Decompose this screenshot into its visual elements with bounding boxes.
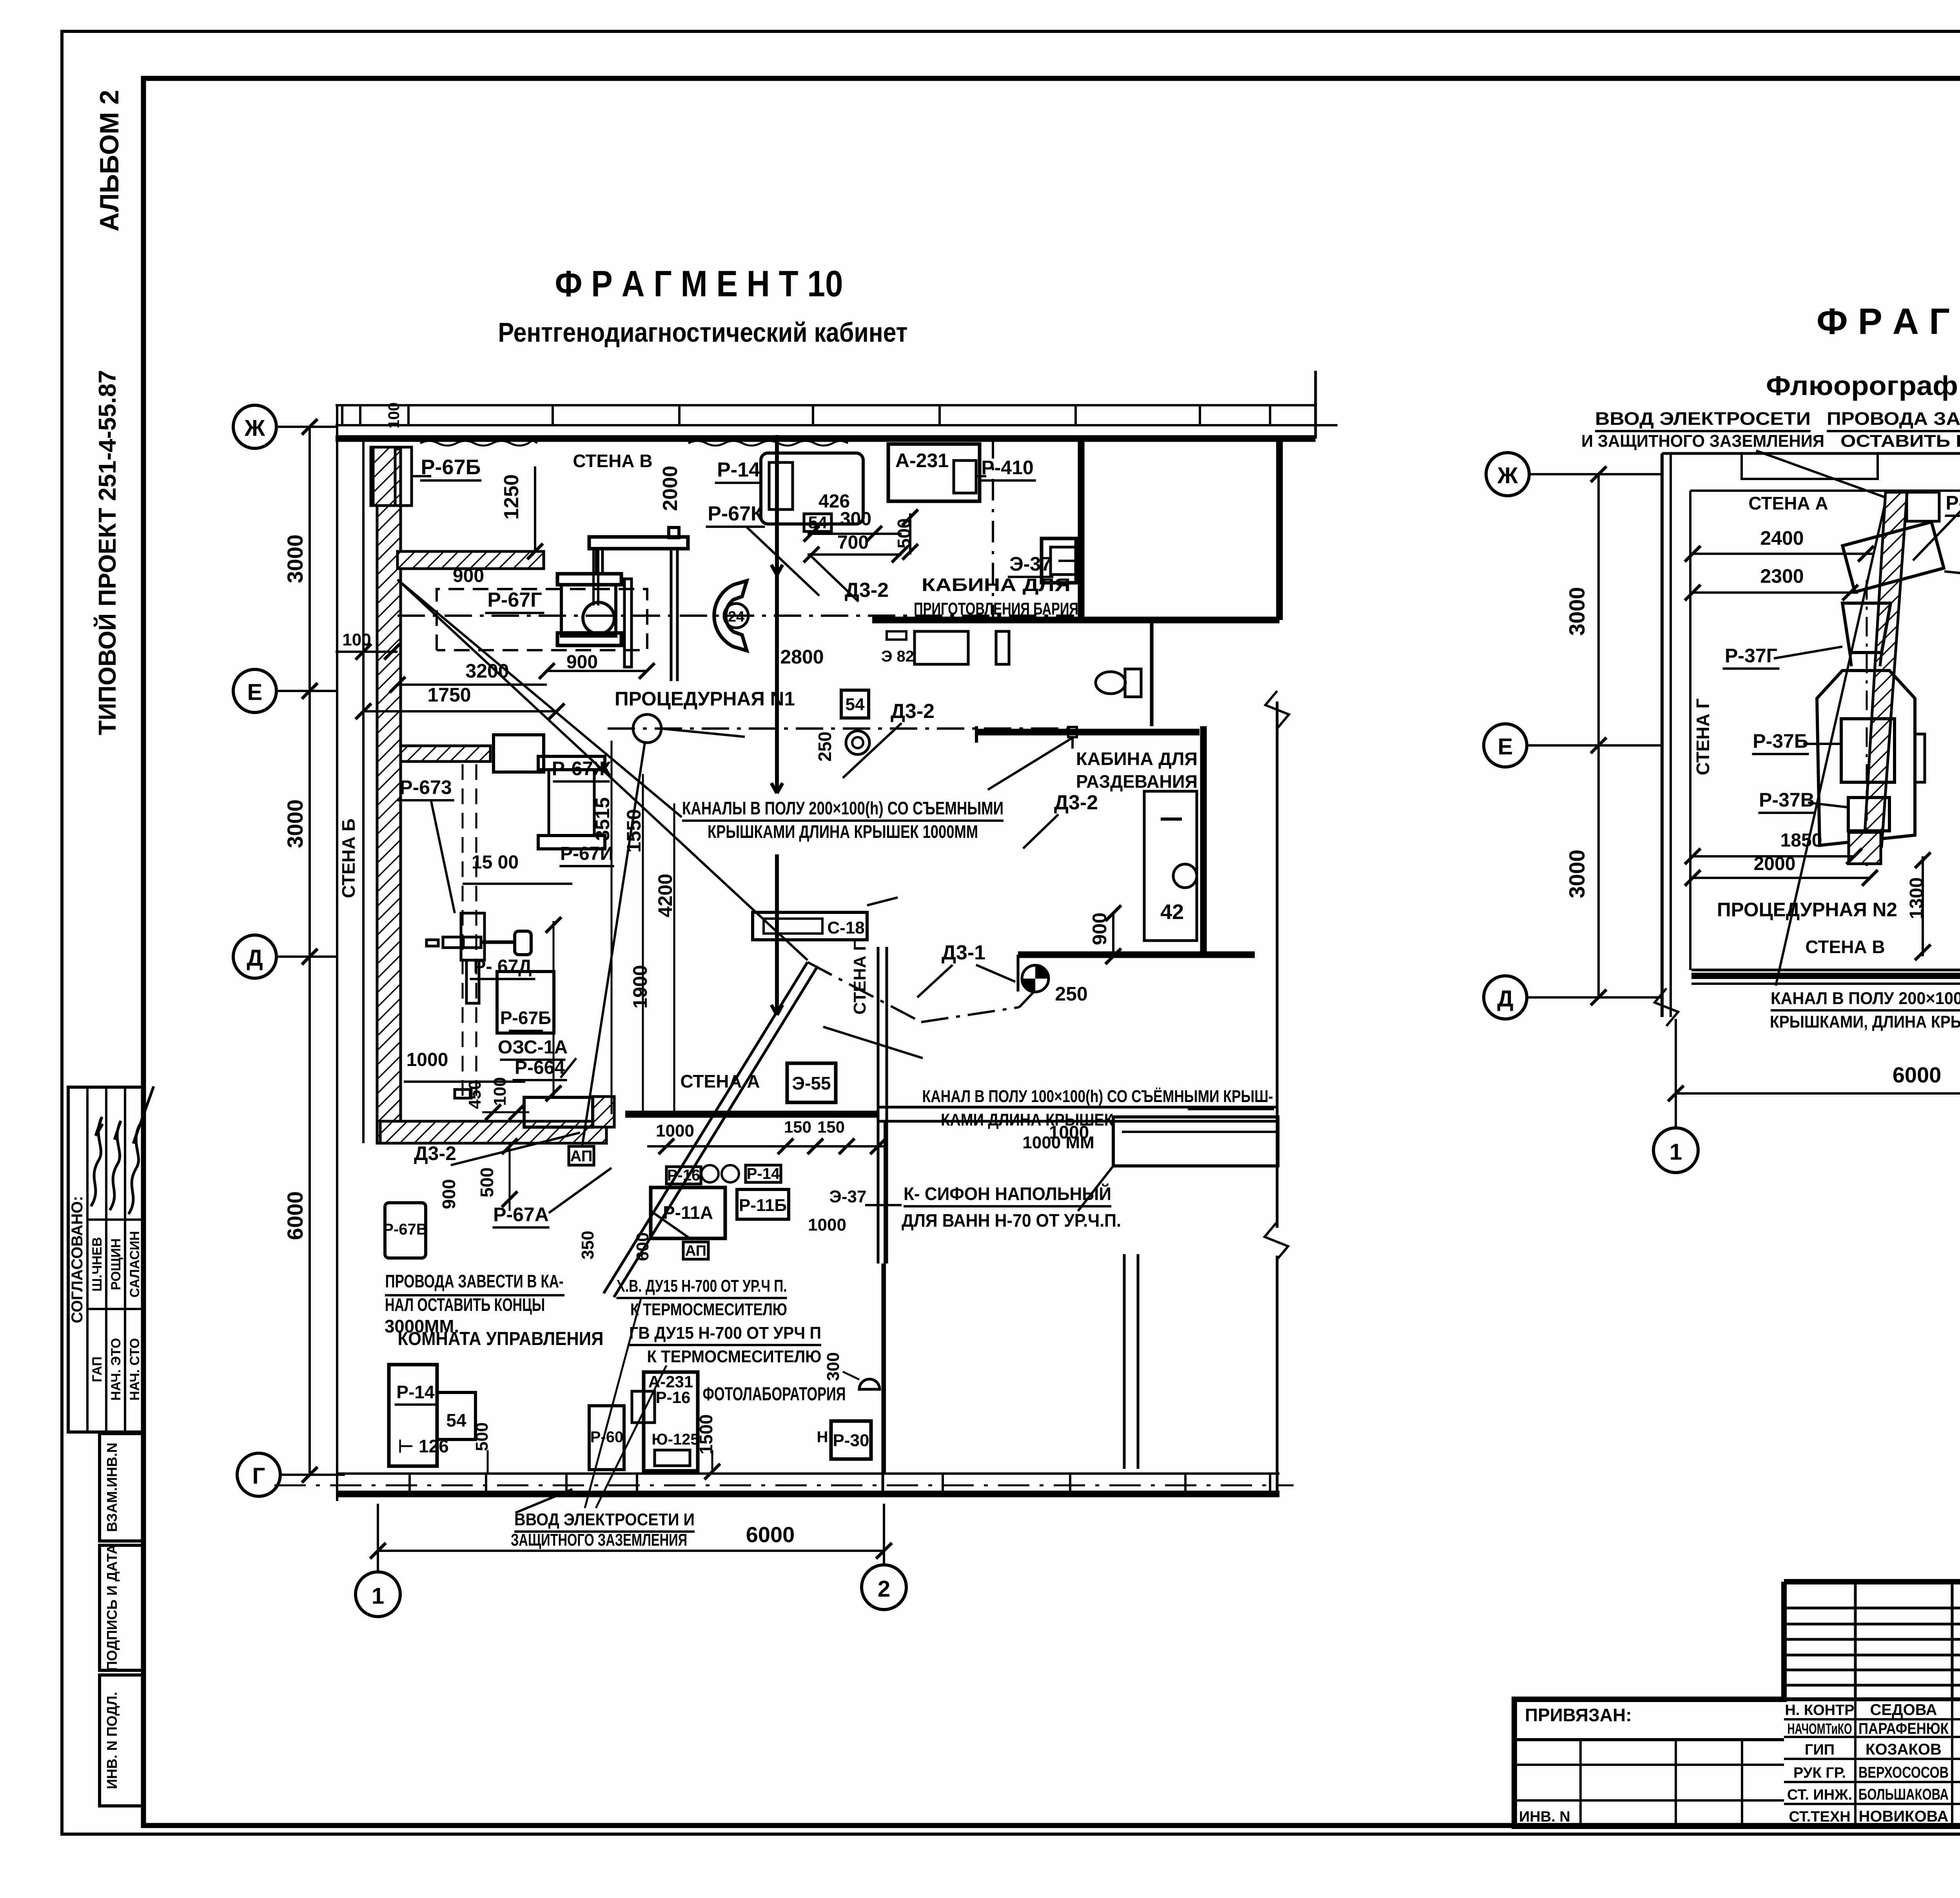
wall right of процедурная (1078, 439, 1085, 620)
corridor right end vertical (1314, 371, 1317, 439)
sidebar box ПОДПИСЬ И ДАТА (100, 1545, 144, 1670)
svg-text:Н. КОНТР: Н. КОНТР (1785, 1702, 1854, 1719)
axis circle 1 bottom (356, 1572, 400, 1617)
corridor wall top band (336, 404, 1316, 406)
axis vertical dim line f9 (1597, 474, 1600, 997)
svg-text:Р-673: Р-673 (399, 776, 452, 798)
interior hatched wall lower room bottom (380, 1121, 606, 1143)
svg-text:КАНАЛ В ПОЛУ 100×100(h) СО СЪЁ: КАНАЛ В ПОЛУ 100×100(h) СО СЪЁМНЫМИ КРЫШ… (922, 1087, 1273, 1106)
wall стена Г double (877, 947, 880, 1264)
equipment С-18 table (753, 912, 867, 940)
svg-text:АП: АП (685, 1243, 706, 1259)
svg-text:1000: 1000 (407, 1050, 448, 1070)
wall horizontal y1582 (872, 617, 1279, 624)
svg-text:6000: 6000 (1893, 1062, 1942, 1087)
svg-text:1000: 1000 (808, 1215, 846, 1235)
equipment lower boxes f9 (1848, 798, 1889, 831)
svg-text:900: 900 (1089, 912, 1111, 945)
axis circle Ж (233, 405, 276, 448)
svg-text:Д3-2: Д3-2 (845, 579, 889, 602)
svg-text:ОЗС-1А: ОЗС-1А (498, 1037, 568, 1058)
svg-text:К ТЕРМОСМЕСИТЕЛЮ: К ТЕРМОСМЕСИТЕЛЮ (630, 1300, 787, 1319)
svg-text:Р-67И: Р-67И (560, 843, 613, 864)
svg-text:1000: 1000 (1049, 1122, 1089, 1142)
svg-text:ПОДПИСЬ И ДАТА: ПОДПИСЬ И ДАТА (104, 1544, 120, 1671)
svg-text:СТЕНА В: СТЕНА В (573, 451, 652, 471)
svg-text:КОЗАКОВ: КОЗАКОВ (1866, 1741, 1942, 1758)
вertical dim lines bottom area (884, 1121, 886, 1474)
svg-text:700: 700 (837, 532, 869, 553)
svg-text:2000: 2000 (1754, 854, 1796, 874)
wall кабина раздевания top (976, 729, 1200, 736)
svg-text:СТЕНА Г: СТЕНА Г (1693, 698, 1713, 775)
axis dim 3000 Ж-Е (309, 427, 311, 691)
svg-text:ПРОЦЕДУРНАЯ N1: ПРОЦЕДУРНАЯ N1 (615, 688, 795, 710)
svg-text:Р-410: Р-410 (981, 457, 1033, 479)
svg-text:1750: 1750 (427, 684, 471, 706)
svg-text:Н: Н (817, 1428, 828, 1446)
sidebar box ИНВ.N ПОДЛ. (100, 1675, 144, 1806)
svg-text:Д3-2: Д3-2 (414, 1142, 456, 1164)
axis dashdot with node (608, 727, 1074, 730)
dim 6000 f9 (1676, 1092, 1960, 1095)
АП box (569, 1146, 594, 1165)
axis dim 6000 Д-Г (309, 957, 311, 1475)
bottom wall piers (410, 1474, 486, 1494)
svg-text:1250: 1250 (500, 474, 523, 520)
svg-text:Э 82: Э 82 (881, 648, 914, 665)
двойной канал diagonal (604, 962, 808, 1293)
svg-text:ВВОД ЭЛЕКТРОСЕТИ: ВВОД ЭЛЕКТРОСЕТИ (1595, 408, 1811, 429)
svg-text:Р-67Б: Р-67Б (500, 1008, 551, 1028)
svg-text:900: 900 (566, 652, 598, 673)
equipment Р-66 box (524, 1097, 593, 1127)
svg-text:Д3-1: Д3-1 (942, 941, 985, 964)
svg-text:Р-14: Р-14 (747, 1165, 780, 1182)
svg-text:КАНАЛ В ПОЛУ 200×100(h) СО СЪЁ: КАНАЛ В ПОЛУ 200×100(h) СО СЪЁМНЫМИ (1771, 989, 1960, 1008)
fixture semicircle (859, 1379, 880, 1389)
svg-text:ЗАЩИТНОГО ЗАЗЕМЛЕНИЯ: ЗАЩИТНОГО ЗАЗЕМЛЕНИЯ (511, 1530, 687, 1550)
equipment А-231 box (888, 444, 980, 501)
siphon near Д3-1 (1022, 965, 1049, 992)
equipment Р-60 box (589, 1406, 624, 1470)
svg-text:ТИПОВОЙ ПРОЕКТ 251-4-55.87: ТИПОВОЙ ПРОЕКТ 251-4-55.87 (94, 370, 121, 735)
svg-text:КАБИНА ДЛЯ: КАБИНА ДЛЯ (922, 575, 1071, 595)
svg-text:100: 100 (490, 1077, 510, 1106)
toilet fixture (1125, 669, 1141, 697)
f9 room inner rect (1690, 489, 1960, 492)
svg-text:ИНВ. N: ИНВ. N (1519, 1809, 1570, 1825)
svg-text:КАНАЛЫ В ПОЛУ 200×100(h) СО С: КАНАЛЫ В ПОЛУ 200×100(h) СО СЪЕМНЫМИ (682, 798, 1004, 818)
wall vertical x2938 (1150, 622, 1154, 726)
svg-text:Рентгенодиагностический каби: Рентгенодиагностический кабинет (498, 317, 908, 348)
box 54 upper (804, 514, 831, 531)
svg-text:1: 1 (1670, 1139, 1682, 1165)
hatched block at wall junction (593, 1097, 614, 1127)
svg-text:1: 1 (372, 1583, 384, 1609)
svg-text:Р-11А: Р-11А (663, 1202, 713, 1223)
svg-text:Ш.ЧНЕВ: Ш.ЧНЕВ (90, 1237, 105, 1291)
svg-text:150: 150 (817, 1118, 845, 1136)
svg-text:1850: 1850 (1780, 830, 1822, 851)
svg-text:Д3-2: Д3-2 (891, 700, 935, 723)
svg-text:Ю-125: Ю-125 (652, 1431, 699, 1448)
niche double rect right (1113, 1117, 1278, 1166)
svg-text:2: 2 (878, 1576, 890, 1602)
corridor wall piers (342, 405, 360, 425)
svg-text:АП: АП (570, 1148, 592, 1165)
svg-text:42: 42 (1160, 900, 1184, 924)
title block outline (1514, 1582, 1960, 1826)
svg-text:Р-14: Р-14 (717, 459, 760, 481)
svg-text:350: 350 (578, 1231, 597, 1259)
svg-text:ГИП: ГИП (1805, 1742, 1835, 1758)
door 42 leaf (1144, 791, 1197, 941)
svg-text:КРЫШКАМИ ДЛИНА КРЫШЕК 1000ММ: КРЫШКАМИ ДЛИНА КРЫШЕК 1000ММ (708, 821, 978, 842)
svg-text:500: 500 (472, 1422, 492, 1451)
канал diagonal leader (397, 580, 682, 817)
wall in фотолаборатория (1123, 1254, 1126, 1469)
equipment Р-67Б2 box (497, 972, 554, 1033)
стена А wall right segment (878, 1106, 1277, 1109)
axis circle Ж f9 (1486, 453, 1529, 496)
svg-text:ПРИВЯЗАН:: ПРИВЯЗАН: (1525, 1705, 1632, 1725)
svg-text:ИНВ. N ПОДЛ.: ИНВ. N ПОДЛ. (104, 1692, 120, 1789)
svg-text:Э-37: Э-37 (1009, 553, 1052, 575)
svg-text:300: 300 (824, 1352, 843, 1381)
svg-text:ГАП: ГАП (90, 1356, 105, 1382)
svg-text:1900: 1900 (629, 965, 651, 1008)
svg-text:3000: 3000 (1564, 850, 1589, 899)
svg-text:3000: 3000 (1564, 587, 1589, 636)
svg-text:900: 900 (439, 1179, 459, 1209)
svg-text:15 00: 15 00 (472, 852, 519, 873)
svg-text:300: 300 (840, 509, 871, 529)
f9 room top line (1662, 452, 1960, 455)
leader node to АП (582, 743, 645, 1146)
axis circle Е f9 (1484, 724, 1527, 767)
svg-text:Э-55: Э-55 (792, 1073, 831, 1093)
svg-text:Ф Р А Г М Е Н Т 10: Ф Р А Г М Е Н Т 10 (555, 263, 843, 304)
svg-text:3515: 3515 (592, 797, 613, 841)
Р-11Б box (737, 1189, 789, 1219)
axis circle Е (233, 669, 276, 712)
svg-text:СТЕНА Б: СТЕНА Б (338, 818, 359, 898)
svg-text:54: 54 (446, 1410, 466, 1430)
svg-text:НАЧ. СТО: НАЧ. СТО (127, 1338, 142, 1400)
svg-text:СТЕНА В: СТЕНА В (1805, 937, 1885, 957)
svg-text:ВВОД ЭЛЕКТРОСЕТИ И: ВВОД ЭЛЕКТРОСЕТИ И (514, 1510, 695, 1529)
svg-text:450: 450 (465, 1080, 485, 1109)
box 54 mid (841, 690, 869, 718)
svg-text:3000: 3000 (283, 535, 307, 584)
svg-text:Е: Е (247, 680, 263, 705)
Р-11А box (651, 1187, 725, 1238)
equipment Р-14 rounded box (761, 453, 863, 524)
label Э-55 box (787, 1063, 836, 1102)
wavy ceiling line left (420, 441, 537, 446)
labels Р-16 Р-14 row (666, 1167, 701, 1184)
svg-text:НОВИКОВА: НОВИКОВА (1859, 1808, 1949, 1825)
small tee fixture on wall (1068, 727, 1077, 737)
svg-text:1500: 1500 (696, 1414, 716, 1454)
svg-text:ПРОВОДА ЗАВЕСТИ В КА-: ПРОВОДА ЗАВЕСТИ В КА- (385, 1271, 564, 1291)
svg-text:СТ.ТЕХН: СТ.ТЕХН (1789, 1809, 1850, 1825)
bottom dim 6000 (378, 1550, 884, 1552)
equipment stand P-67K claw (714, 581, 747, 651)
svg-text:ВЕРХОСОСОВ: ВЕРХОСОСОВ (1858, 1764, 1949, 1781)
axis circle 1 f9 (1653, 1128, 1698, 1173)
svg-text:Р-37Г: Р-37Г (1725, 645, 1777, 667)
wall sinks (701, 1165, 719, 1182)
interior hatched wall mid (401, 746, 490, 761)
стойка thin (624, 579, 632, 667)
svg-text:С-18: С-18 (827, 918, 864, 937)
svg-text:Р-67Г: Р-67Г (487, 589, 542, 611)
building right wall top (1276, 439, 1283, 620)
svg-text:Д: Д (247, 945, 263, 971)
fragment10 right wall lower (1276, 702, 1279, 1228)
svg-text:И ЗАЩИТНОГО ЗАЗЕМЛЕНИЯ: И ЗАЩИТНОГО ЗАЗЕМЛЕНИЯ (1581, 431, 1824, 451)
X-ray gantry bar (589, 537, 688, 549)
X-ray table Р-67Г spool (557, 574, 621, 585)
equipment small stand (461, 913, 485, 960)
sidebar approval table (68, 1087, 144, 1432)
svg-text:54: 54 (846, 695, 865, 714)
f9 канал hatched strip (1864, 492, 1907, 847)
wall стена Б outer line (336, 405, 338, 1501)
svg-text:Д: Д (1497, 986, 1513, 1012)
column block (996, 631, 1009, 664)
room э82 shelf rects (887, 631, 906, 640)
svg-text:Ж: Ж (1497, 463, 1518, 488)
svg-text:ОСТАВИТЬ КОНЦЫ 3000ММ: ОСТАВИТЬ КОНЦЫ 3000ММ (1840, 431, 1960, 451)
hatched block f9 bottom (1849, 832, 1881, 864)
revision grid (1854, 1582, 1857, 1699)
equipment А-231/Р-16/Ю-125 group (644, 1372, 698, 1471)
svg-text:РАЗДЕВАНИЯ: РАЗДЕВАНИЯ (1076, 771, 1198, 792)
svg-text:Р-14: Р-14 (396, 1382, 435, 1402)
svg-text:НАЧ. ЭТО: НАЧ. ЭТО (109, 1338, 123, 1401)
svg-text:Р-37В: Р-37В (1759, 789, 1815, 811)
dashed rect equipment zone (437, 589, 647, 650)
svg-text:СТЕНА А: СТЕНА А (1748, 493, 1828, 513)
leaders термосмеситель (585, 1297, 641, 1508)
svg-text:Х.В. ДУ15 Н-700 ОТ УР.Ч П.: Х.В. ДУ15 Н-700 ОТ УР.Ч П. (617, 1276, 787, 1296)
svg-text:Р-67Ж: Р-67Ж (552, 758, 612, 780)
wall стена А thick (625, 1111, 878, 1118)
svg-text:К ТЕРМОСМЕСИТЕЛЮ: К ТЕРМОСМЕСИТЕЛЮ (647, 1347, 822, 1366)
svg-text:СОГЛАСОВАНО:: СОГЛАСОВАНО: (69, 1196, 86, 1323)
svg-text:РОЩИН: РОЩИН (109, 1238, 123, 1290)
dash-dot канал f9 from Р-37А (1944, 571, 1960, 593)
wall стена Б hatched strip (377, 449, 401, 1143)
equipment Р-67Б hatched box (373, 447, 395, 506)
svg-text:Р-60: Р-60 (590, 1428, 624, 1446)
equipment Р-37Г chair (1842, 603, 1891, 653)
vertical spool table (538, 756, 605, 770)
канал vertical line with arrows (775, 435, 779, 793)
equipment Р-67Д arm (426, 940, 438, 946)
column foot (455, 1089, 471, 1098)
svg-text:РУК ГР.: РУК ГР. (1793, 1765, 1846, 1781)
f9 corridor piers (1742, 453, 1878, 479)
node circle 24 (724, 604, 748, 628)
svg-text:100: 100 (385, 402, 403, 429)
equipment pentagon housing f9 (1817, 671, 1915, 845)
АП box 2 (683, 1242, 708, 1259)
axis dim 3000 Е-Д (309, 691, 311, 957)
f9 bottom wall (1691, 969, 1960, 972)
svg-text:Р- 67Д: Р- 67Д (474, 956, 532, 977)
svg-text:СТЕНА Г: СТЕНА Г (850, 941, 869, 1015)
svg-text:250: 250 (815, 732, 835, 762)
equipment Р-37А tilted (1842, 522, 1944, 592)
wall стена Г lower single (882, 1264, 884, 1495)
svg-text:А-231: А-231 (895, 450, 949, 471)
centerline dash-dot f9 unit (1866, 580, 1868, 866)
svg-text:1300: 1300 (1906, 877, 1927, 919)
svg-text:НАЛ ОСТАВИТЬ КОНЦЫ: НАЛ ОСТАВИТЬ КОНЦЫ (385, 1294, 545, 1315)
svg-text:ГВ ДУ15 Н-700 ОТ УРЧ П: ГВ ДУ15 Н-700 ОТ УРЧ П (629, 1323, 821, 1343)
svg-text:2000: 2000 (659, 466, 682, 511)
svg-text:АЛЬБОМ 2: АЛЬБОМ 2 (94, 90, 124, 232)
svg-text:500: 500 (477, 1167, 497, 1198)
svg-text:ПАРАФЕНЮК: ПАРАФЕНЮК (1858, 1720, 1949, 1737)
svg-text:600: 600 (633, 1232, 652, 1261)
svg-text:Р-16: Р-16 (656, 1388, 691, 1407)
svg-text:ПРОЦЕДУРНАЯ N2: ПРОЦЕДУРНАЯ N2 (1717, 899, 1897, 921)
left inner wall line (362, 439, 365, 1143)
bottom wall axis dashdot (274, 1485, 1294, 1486)
svg-text:4200: 4200 (654, 874, 676, 917)
svg-text:Р-16: Р-16 (667, 1167, 701, 1184)
axis circle Г (237, 1453, 280, 1496)
interior hatched wall upper (397, 551, 544, 569)
svg-text:Р-67А: Р-67А (493, 1204, 549, 1225)
corridor axis dash-dot (576, 424, 666, 426)
канал dash-dot jog (808, 962, 921, 1022)
svg-text:Ж: Ж (244, 415, 265, 441)
svg-text:2300: 2300 (1760, 565, 1804, 587)
equipment Р-67Ж column (494, 735, 544, 772)
канал dash-dot vertical to кабина (992, 437, 994, 618)
equipment Р-67В box (385, 1203, 426, 1258)
svg-text:3000: 3000 (283, 799, 307, 848)
siphon circle mid (846, 731, 869, 754)
leader lines from notes (1756, 451, 1886, 498)
svg-text:Р-67К: Р-67К (708, 502, 763, 525)
staff rows (1784, 1718, 1960, 1720)
svg-text:Р-37Б: Р-37Б (1753, 730, 1808, 752)
svg-text:КРЫШКАМИ, ДЛИНА КРЫШЕК 1000ММ: КРЫШКАМИ, ДЛИНА КРЫШЕК 1000ММ (1770, 1012, 1960, 1031)
svg-text:ПРОВОДА ЗАВЕСТИ В КАНАЛ: ПРОВОДА ЗАВЕСТИ В КАНАЛ (1827, 408, 1960, 429)
svg-text:Е: Е (1498, 734, 1513, 760)
svg-text:Р-37Д: Р-37Д (1945, 492, 1960, 514)
svg-text:Ф Р А Г М Е Н Т 9: Ф Р А Г М Е Н Т 9 (1817, 301, 1960, 342)
approver signatures (91, 1117, 103, 1206)
equipment Р-14 bottom box (389, 1365, 437, 1466)
lower right room top wall (1018, 952, 1255, 958)
svg-text:Р-30: Р-30 (833, 1431, 869, 1450)
svg-text:БОЛЬШАКОВА: БОЛЬШАКОВА (1858, 1786, 1949, 1803)
svg-text:250: 250 (1055, 983, 1087, 1005)
svg-text:САЛАСИН: САЛАСИН (127, 1231, 142, 1298)
sidebar box ВЗАМ.ИНВ.N (100, 1434, 144, 1541)
axis circle Д f9 (1484, 976, 1527, 1019)
svg-text:КАБИНА ДЛЯ: КАБИНА ДЛЯ (1076, 749, 1198, 769)
svg-text:Флюорографический кабинет: Флюорографический кабинет (1766, 370, 1960, 401)
svg-text:6000: 6000 (746, 1522, 795, 1547)
svg-text:1000: 1000 (656, 1121, 694, 1140)
axis circle 2 bottom (862, 1565, 906, 1610)
svg-text:СЕДОВА: СЕДОВА (1870, 1701, 1937, 1719)
svg-text:ФОТОЛАБОРАТОРИЯ: ФОТОЛАБОРАТОРИЯ (703, 1384, 846, 1405)
wall кабина раздевания right (1200, 726, 1207, 952)
svg-text:Э-37: Э-37 (829, 1187, 867, 1206)
svg-text:6000: 6000 (283, 1191, 307, 1240)
machine body rect f9 (1841, 719, 1895, 782)
dim 900 door (1112, 913, 1114, 956)
svg-text:ВЗАМ.ИНВ.N: ВЗАМ.ИНВ.N (104, 1443, 120, 1532)
svg-text:СТ. ИНЖ.: СТ. ИНЖ. (1787, 1787, 1852, 1803)
svg-text:Р-664: Р-664 (515, 1057, 565, 1078)
svg-text:Р-11Б: Р-11Б (739, 1196, 787, 1215)
svg-text:КОМНАТА УПРАВЛЕНИЯ: КОМНАТА УПРАВЛЕНИЯ (398, 1329, 604, 1349)
svg-text:Д3-2: Д3-2 (1054, 791, 1098, 814)
f9 left outer wall (1661, 453, 1664, 1017)
axis circle Д (233, 935, 276, 978)
svg-text:2800: 2800 (780, 646, 824, 668)
svg-text:2400: 2400 (1760, 527, 1804, 549)
wavy ceiling line mid (688, 441, 848, 446)
fixture Э-37 (1042, 538, 1076, 583)
svg-text:НАЧОМТиКО: НАЧОМТиКО (1788, 1721, 1852, 1737)
svg-text:К- СИФОН НАПОЛЬНЫЙ: К- СИФОН НАПОЛЬНЫЙ (904, 1184, 1111, 1204)
svg-text:150: 150 (784, 1118, 811, 1136)
bottom wall band (337, 1472, 1279, 1475)
svg-text:Р-67В: Р-67В (383, 1221, 427, 1238)
svg-text:ДЛЯ ВАНН Н-70 ОТ УР.Ч.П.: ДЛЯ ВАНН Н-70 ОТ УР.Ч.П. (902, 1210, 1121, 1231)
box 54 bottom (437, 1392, 475, 1439)
Р-30 box (831, 1421, 871, 1459)
svg-text:⊢ 126: ⊢ 126 (398, 1436, 449, 1456)
axis dashdot процедурная horizontal (397, 615, 1074, 617)
svg-text:Г: Г (252, 1463, 265, 1489)
